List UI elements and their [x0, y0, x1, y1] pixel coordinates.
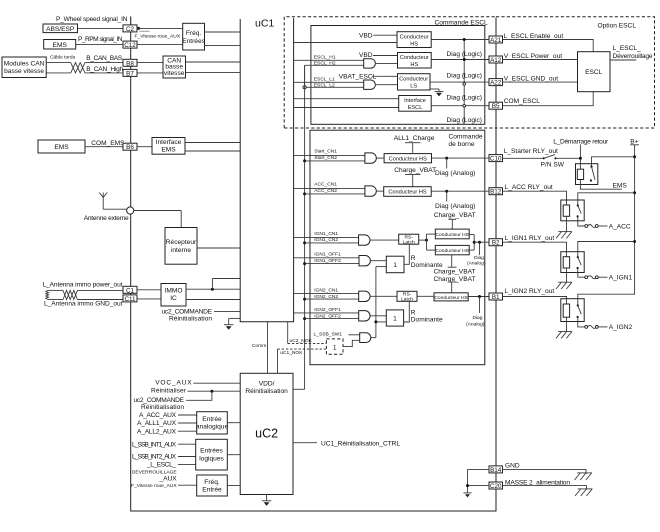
- wire Interface ESCL out to B5: [431, 105, 489, 107]
- svg-text:uC1: uC1: [255, 18, 274, 30]
- box Commande ESCL block: [311, 26, 485, 125]
- svg-text:P_Wheel speed signal_IN: P_Wheel speed signal_IN: [56, 16, 128, 23]
- wire uC1 to Interface ESCL in2: [294, 107, 399, 109]
- label R Dominante IGN2: [411, 310, 443, 324]
- svg-text:(Analog): (Analog): [466, 322, 485, 328]
- label R Dominante IGN1: [411, 255, 443, 269]
- svg-text:ACC_CN2: ACC_CN2: [314, 188, 337, 194]
- svg-text:1: 1: [393, 262, 397, 269]
- svg-text:A_ACC: A_ACC: [609, 223, 631, 230]
- wire COM_EMS: [85, 146, 123, 148]
- svg-text:B_CAN_BAS: B_CAN_BAS: [86, 55, 123, 62]
- svg-text:L_SSB_SW1: L_SSB_SW1: [314, 332, 343, 338]
- svg-text:_L_ESCL_: _L_ESCL_: [146, 462, 176, 469]
- and gate ESCL_L: [364, 80, 376, 89]
- wire B7 to CAN box: [137, 72, 163, 74]
- label B+: [630, 139, 639, 146]
- node IGN2_OFF2 junction: [303, 317, 306, 320]
- svg-text:Diag (Analog): Diag (Analog): [435, 170, 475, 177]
- svg-text:ESCL_H1: ESCL_H1: [314, 55, 336, 61]
- svg-text:VBD: VBD: [359, 52, 373, 59]
- wire gate Start out: [376, 157, 384, 159]
- wire Charge_VBAT IGN1 T: [449, 219, 457, 229]
- svg-text:IGN1_OFF2: IGN1_OFF2: [314, 258, 341, 264]
- box CAN basse vitesse: [163, 56, 186, 78]
- box Conducteur HS Start: [384, 154, 431, 163]
- wire VOC_AUX: [193, 382, 240, 384]
- svg-text:IGN2_CN1: IGN2_CN1: [314, 287, 338, 293]
- svg-text:V_ESCL GND_out: V_ESCL GND_out: [504, 76, 559, 83]
- diag tap IGN1: [478, 241, 481, 255]
- svg-text:Conducteur HS: Conducteur HS: [435, 232, 469, 238]
- twisted pair antenna immo: [63, 290, 77, 299]
- wire antenna to node: [103, 208, 126, 210]
- svg-text:GND: GND: [505, 463, 520, 470]
- wire Freq Entrees out2 to uC1: [205, 45, 241, 47]
- ground LS: [430, 89, 444, 96]
- diag tap ACC: [445, 190, 448, 202]
- svg-text:B14: B14: [490, 467, 502, 474]
- wire L_Demarrage retour drop: [579, 145, 582, 170]
- svg-text:L_SSB_INT1_AUX: L_SSB_INT1_AUX: [132, 441, 177, 448]
- ground relay IGN1: [556, 268, 572, 289]
- dashed box Commande ESCL: [284, 17, 496, 128]
- wire uC2 monitor vertical (net uC2 check): [293, 65, 305, 389]
- svg-text:basse vitesse: basse vitesse: [4, 68, 44, 75]
- svg-text:Entrée: Entrée: [202, 487, 222, 494]
- svg-text:Diag (Logic): Diag (Logic): [446, 95, 482, 102]
- svg-text:Entrées: Entrées: [182, 38, 205, 45]
- wire C2 to Freq Entrees: [137, 27, 183, 29]
- pin B2: [489, 239, 503, 247]
- wire gate L out: [376, 84, 398, 86]
- pin C10: [489, 155, 503, 163]
- antenna symbol: [99, 193, 107, 210]
- svg-text:VDD/: VDD/: [259, 380, 275, 387]
- svg-text:R: R: [411, 310, 416, 317]
- svg-text:C1: C1: [126, 287, 135, 294]
- svg-text:COM_ESCL: COM_ESCL: [504, 98, 541, 105]
- svg-text:de borne: de borne: [449, 141, 475, 148]
- svg-text:Conducteur: Conducteur: [400, 55, 429, 61]
- ground uC2: [262, 495, 271, 506]
- svg-text:IMMO: IMMO: [165, 288, 183, 295]
- wire L_SSB_SW1: [349, 334, 360, 336]
- label L_ESCL_ Deverrouillage: [613, 45, 653, 60]
- svg-text:Entrée: Entrée: [202, 416, 222, 423]
- wire gate IGN1_OFF out: [370, 260, 386, 262]
- wire A21 to ESCL: [502, 40, 593, 52]
- box Interface ESCL: [399, 96, 432, 112]
- fuse A_ACC: [585, 225, 608, 228]
- box ESCL: [578, 52, 611, 92]
- box Conducteur HS2: [398, 53, 432, 69]
- svg-text:B7: B7: [126, 70, 134, 77]
- wire ESCL_L2: [303, 86, 364, 89]
- wire IGN2 relay contact to fuse: [578, 317, 585, 327]
- svg-text:A12: A12: [490, 57, 502, 64]
- wire A_ALL1_AUX: [178, 422, 197, 424]
- wire C11 to IMMO IC: [137, 298, 161, 300]
- svg-text:L_ESCL_: L_ESCL_: [613, 45, 642, 52]
- box Commande de borne block: [310, 130, 485, 365]
- coil termination antenna immo: [46, 290, 49, 299]
- relay starter RLY1: [576, 164, 598, 185]
- box Conducteur HS IGN2: [434, 293, 469, 301]
- wire IMMO out2 to uC1: [186, 299, 240, 301]
- and gate IGN1_OFF: [359, 256, 370, 266]
- chassis ground GND: [575, 473, 593, 480]
- wire Charge_VBAT IGN1b T: [448, 255, 457, 267]
- box Modules CAN basse vitesse: [2, 57, 46, 78]
- and gate IGN2_CN: [359, 291, 370, 301]
- pin B12: [489, 188, 503, 196]
- pin B7: [123, 69, 137, 77]
- wire UC1_Reinitialisation_CTRL: [293, 442, 317, 444]
- switch P/N SW: [543, 155, 557, 160]
- svg-text:IGN2_OFF1: IGN2_OFF1: [314, 307, 341, 313]
- relay ACC RLY2: [561, 200, 584, 221]
- svg-text:L_IGN2 RLY_out: L_IGN2 RLY_out: [505, 288, 555, 295]
- pin B6: [123, 143, 137, 151]
- svg-text:Antenne externe: Antenne externe: [84, 215, 129, 222]
- wire ESCL Deverrouillage out: [610, 59, 636, 61]
- svg-text:L_ACC RLY_out: L_ACC RLY_out: [505, 184, 553, 191]
- ground internal supply: [463, 493, 471, 498]
- pin A12: [489, 56, 503, 64]
- wire B6 to Interface EMS: [137, 146, 152, 148]
- svg-text:Conducteur HS: Conducteur HS: [435, 248, 469, 254]
- wire A12 to ESCL: [502, 59, 578, 61]
- pin C2: [123, 25, 137, 33]
- svg-text:L_Démarrage retour: L_Démarrage retour: [553, 138, 609, 145]
- svg-text:interne: interne: [171, 247, 191, 254]
- svg-text:A_ALL1_AUX: A_ALL1_AUX: [137, 420, 177, 427]
- box RS-Latch IGN2: [397, 291, 417, 302]
- wire gate IGN2_CN out: [370, 295, 397, 297]
- svg-text:Option ESCL: Option ESCL: [598, 23, 637, 30]
- pin B5: [489, 102, 503, 110]
- svg-text:F_Vitesse roue_AUX: F_Vitesse roue_AUX: [135, 33, 181, 39]
- svg-text:Fréq.: Fréq.: [186, 30, 202, 37]
- svg-text:Interface: Interface: [156, 139, 182, 146]
- svg-text:UC1_Réinitialisation_CTRL: UC1_Réinitialisation_CTRL: [321, 440, 400, 447]
- svg-text:Dominante: Dominante: [411, 317, 443, 324]
- wire Conducteur HS IGN2 out to B1: [468, 296, 489, 298]
- wire node to Recepteur: [134, 211, 181, 228]
- pin A22: [489, 79, 503, 87]
- wire Interface EMS out2: [185, 150, 240, 152]
- wire B+ rail: [578, 145, 635, 306]
- pin B1: [489, 293, 503, 301]
- node Start_CN2 junction: [303, 159, 306, 162]
- pin A21: [489, 36, 503, 44]
- wire ESCL_H1: [294, 59, 364, 61]
- node B+ tap IGN1: [633, 240, 636, 243]
- wire RS2 out: [417, 295, 434, 297]
- svg-text:EMS: EMS: [161, 147, 176, 154]
- svg-text:logiques: logiques: [199, 455, 224, 462]
- wire IGN1_CN2: [305, 242, 359, 244]
- svg-text:(Analog): (Analog): [467, 260, 486, 266]
- wire gate IGN2_OFF out: [370, 315, 387, 317]
- wire L_SSB_INT2_AUX: [178, 456, 196, 458]
- svg-text:Entrées: Entrées: [200, 448, 223, 455]
- wire IGN1 relay contact to fuse: [578, 268, 585, 277]
- svg-text:C10: C10: [490, 156, 502, 163]
- box Conducteur HS IGN1b: [435, 245, 469, 254]
- pin B14: [489, 466, 503, 474]
- box Freq Entrees: [182, 23, 205, 50]
- wire Freq Entrees out1 to uC1: [205, 31, 241, 33]
- wire uc2_COMMANDE aux: [186, 391, 212, 400]
- wire F_Vitesse roue_AUX bottom: [178, 484, 197, 486]
- wire uC1_NOK dashed: [278, 349, 327, 373]
- svg-text:ACC_CN1: ACC_CN1: [314, 182, 337, 188]
- svg-text:Interface: Interface: [404, 98, 426, 104]
- svg-text:LS: LS: [410, 84, 417, 90]
- svg-text:Conducteur HS: Conducteur HS: [434, 295, 468, 301]
- svg-text:VBAT_ESCL: VBAT_ESCL: [339, 73, 377, 80]
- wire B_CAN_High: [46, 72, 123, 74]
- wire uC1 to Interface ESCL in1: [294, 98, 399, 100]
- svg-text:F_Vitesse roue_AUX: F_Vitesse roue_AUX: [131, 483, 177, 489]
- wire Conducteur HS Start out to C10: [432, 157, 490, 159]
- svg-text:B_CAN_High: B_CAN_High: [86, 66, 123, 73]
- label Commande de borne: [449, 134, 483, 148]
- wire 1 IGN1 out to RS1 R: [404, 244, 409, 264]
- svg-text:Réinitialisation: Réinitialisation: [141, 404, 184, 411]
- svg-text:L_Starter RLY_out: L_Starter RLY_out: [504, 148, 558, 155]
- wire MASSE2 to chassis: [502, 486, 587, 490]
- wire B12 to ACC relay coil: [502, 191, 567, 205]
- box Freq Entree uC2: [197, 475, 228, 496]
- wire IGN1_OFF1: [294, 257, 359, 259]
- wire IGN2_OFF1: [294, 312, 359, 314]
- svg-text:Fréq.: Fréq.: [204, 479, 220, 486]
- wire B2 to IGN1 relay coil: [502, 242, 567, 257]
- dashed box Option ESCL: [496, 17, 655, 128]
- svg-text:Commande: Commande: [449, 134, 483, 141]
- and gate Start: [365, 153, 376, 163]
- node IGN1_CN2 junction: [303, 241, 306, 244]
- fuse A_IGN1: [585, 276, 608, 279]
- svg-text:A22: A22: [490, 80, 502, 87]
- pin C20: [489, 482, 503, 490]
- svg-text:Récepteur: Récepteur: [166, 239, 197, 246]
- wire C10 to PN switch: [502, 157, 543, 159]
- svg-text:Déverrouillage: Déverrouillage: [613, 53, 653, 60]
- box 1 IGN1: [386, 256, 404, 273]
- label L_ESCL_DEVERROUILLAGE_AUX: [132, 462, 178, 483]
- wire HS1 out to A21: [431, 39, 489, 41]
- wire Start_CN1: [294, 154, 365, 156]
- wire CAN out2 to uC1: [186, 72, 241, 74]
- svg-text:R: R: [411, 255, 416, 262]
- wire B8 to CAN box: [137, 62, 163, 64]
- wire ESCL_L1: [294, 81, 364, 83]
- wire starter coil bottom to EMS: [580, 180, 621, 190]
- svg-text:B8: B8: [126, 60, 134, 67]
- wire IGN2_CN2: [305, 298, 359, 300]
- box microcontroller uC2: [240, 373, 293, 494]
- wire Entrees logiques out: [227, 454, 240, 456]
- svg-text:uc2_COMMANDE: uc2_COMMANDE: [162, 309, 213, 316]
- and gate IGN2_OFF: [359, 311, 370, 321]
- wire uC2_NOK dashed: [288, 322, 327, 344]
- svg-text:EMS: EMS: [54, 144, 69, 151]
- svg-text:Diag (Logic): Diag (Logic): [446, 51, 482, 58]
- box Conducteur HS1: [397, 32, 431, 48]
- svg-text:B2: B2: [492, 240, 500, 247]
- and gate IGN1_CN: [359, 235, 370, 245]
- svg-text:Start_CN1: Start_CN1: [314, 149, 337, 155]
- wire GND to chassis: [502, 469, 586, 474]
- box Interface EMS: [152, 138, 185, 155]
- svg-text:Diag (Logic): Diag (Logic): [446, 73, 482, 80]
- svg-text:_AUX: _AUX: [158, 475, 177, 482]
- box RS-Latch IGN1: [399, 234, 419, 245]
- svg-text:L_SSB_INT2_AUX: L_SSB_INT2_AUX: [132, 454, 177, 461]
- and gate ACC: [365, 186, 376, 196]
- svg-text:ALL1_Charge: ALL1_Charge: [394, 135, 435, 142]
- svg-text:Conducteur HS: Conducteur HS: [389, 157, 428, 163]
- wire ESCL_H2: [305, 65, 364, 87]
- wire Reinitialiser: [188, 390, 241, 393]
- svg-text:Diag (Logic): Diag (Logic): [446, 117, 482, 124]
- svg-text:ABS/ESP: ABS/ESP: [46, 26, 75, 33]
- label Diag Analog IGN2: [466, 315, 485, 328]
- wire L_SSB_INT1_AUX: [178, 443, 196, 445]
- box Conducteur HS ACC: [384, 187, 432, 197]
- box EMS (RPM): [44, 40, 76, 50]
- box ABS/ESP: [43, 24, 78, 33]
- svg-text:IGN1_CN1: IGN1_CN1: [314, 231, 338, 237]
- diag tap IGN2: [478, 295, 481, 313]
- svg-text:B1: B1: [492, 294, 500, 301]
- svg-text:C12: C12: [124, 42, 136, 49]
- wire P_Wheel speed signal_IN: [78, 17, 131, 29]
- svg-text:IC: IC: [170, 295, 177, 302]
- pin C1: [123, 286, 137, 294]
- wire IGN1 HS outputs join: [469, 235, 489, 251]
- wire HS2 out to A12: [431, 59, 489, 61]
- svg-text:C11: C11: [124, 296, 136, 303]
- wire gate SSB out: [371, 337, 376, 339]
- wire VBD row2: [373, 55, 398, 57]
- wire L_ESCL_DEVERROUILLAGE_AUX: [178, 463, 196, 465]
- wire 1 IGN2 out to RS2 R: [404, 301, 410, 322]
- svg-text:Start_CN2: Start_CN2: [314, 155, 337, 161]
- wire B5 to ESCL: [502, 92, 593, 106]
- svg-text:C2: C2: [126, 26, 135, 33]
- svg-text:Charge_VBAT: Charge_VBAT: [394, 167, 436, 174]
- box 1 IGN2: [386, 310, 403, 326]
- svg-text:uc2_COMMANDE: uc2_COMMANDE: [134, 397, 185, 404]
- node IGN1_OFF2 junction: [303, 262, 306, 265]
- wire L_Antenna immo GND_out: [48, 299, 123, 301]
- wire Conducteur HS ACC out to B12: [431, 190, 489, 192]
- svg-text:Réinitialisation: Réinitialisation: [169, 316, 212, 323]
- svg-text:Latch: Latch: [403, 239, 415, 245]
- svg-text:Câble tordu: Câble tordu: [50, 55, 76, 61]
- wire Interface EMS out1: [185, 142, 240, 144]
- wire B_CAN_BAS: [46, 62, 123, 64]
- diag tap Start: [445, 157, 448, 169]
- svg-text:Latch: Latch: [401, 297, 413, 303]
- wire Charge_VBAT IGN2 T: [448, 282, 457, 293]
- wire gate H out: [376, 62, 398, 64]
- svg-text:B6: B6: [126, 144, 134, 151]
- box 1 dashed: [326, 339, 343, 354]
- wire 1 dashed out to SSB gate: [343, 340, 360, 346]
- ECU outer box: [131, 17, 496, 512]
- chassis ground MASSE2: [575, 489, 593, 496]
- relay IGN1 RLY3: [561, 252, 584, 273]
- relay IGN2 RLY4: [561, 299, 584, 322]
- wire RS1 out split: [419, 234, 436, 250]
- svg-text:uC2: uC2: [255, 427, 278, 441]
- svg-text:A_IGN1: A_IGN1: [609, 275, 633, 282]
- pin C11: [123, 295, 137, 303]
- wire L_Antenna immo power_out: [48, 289, 123, 291]
- wire A_ACC_AUX: [178, 414, 197, 416]
- svg-text:IGN1_OFF1: IGN1_OFF1: [314, 252, 341, 258]
- svg-text:A_ACC_AUX: A_ACC_AUX: [139, 412, 177, 419]
- node B+ tap ACC: [633, 191, 636, 194]
- svg-text:HS: HS: [410, 42, 418, 48]
- svg-text:IGN1_CN2: IGN1_CN2: [314, 237, 338, 243]
- and gate SSB: [360, 333, 371, 343]
- svg-text:P_RPM signal_IN: P_RPM signal_IN: [78, 36, 123, 43]
- node antenne externe: [127, 207, 134, 214]
- wire Charge_VBAT ACC T: [405, 175, 421, 187]
- wire B+ to ACC relay contact: [578, 193, 635, 206]
- wire B+ to IGN1 relay contact: [578, 242, 635, 258]
- wire C12 to Freq Entrees: [137, 44, 183, 46]
- wire ACC_CN2: [305, 193, 365, 195]
- svg-text:COM_EMS: COM_EMS: [91, 140, 125, 147]
- svg-text:uC1_NOK: uC1_NOK: [280, 350, 303, 356]
- op-amp region: microcontroller uC1: [240, 18, 293, 322]
- box Entree analogique: [196, 412, 229, 434]
- wire IGN2_OFF2: [305, 318, 359, 320]
- svg-text:Conducteur HS: Conducteur HS: [388, 190, 427, 196]
- svg-text:A21: A21: [490, 37, 502, 44]
- box EMS (COM): [38, 140, 85, 153]
- and gate ESCL_H: [364, 59, 376, 68]
- svg-text:1: 1: [333, 344, 337, 351]
- wire gate IGN1_CN out: [370, 239, 399, 241]
- box Conducteur HS IGN1a: [435, 229, 469, 239]
- wire IMMO out1 to uC1: [186, 279, 240, 291]
- wire Recepteur to uC1: [197, 247, 240, 249]
- svg-text:P/N SW: P/N SW: [541, 162, 565, 169]
- wire uc2_COMMANDE to uC1: [214, 310, 240, 312]
- wire gate ACC out: [376, 190, 384, 192]
- pin C12: [123, 41, 137, 49]
- svg-text:Conducteur: Conducteur: [399, 77, 428, 83]
- ground relay ACC: [556, 216, 572, 238]
- diag bus ESCL: [463, 38, 466, 124]
- label uc2_COMMANDE Reinitialisation: [162, 309, 213, 323]
- wire LS out to A22: [430, 81, 490, 83]
- ground relay IGN2: [556, 317, 572, 338]
- svg-text:A_IGN2: A_IGN2: [609, 324, 633, 331]
- wire A22 to ESCL: [502, 81, 578, 83]
- fuse A_IGN2: [585, 325, 608, 328]
- svg-text:Comm: Comm: [252, 343, 266, 349]
